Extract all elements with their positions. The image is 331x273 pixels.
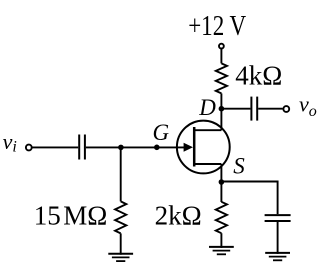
label 2kΩ [155,201,202,231]
resistor 4kΩ (drain) [216,63,227,93]
label G [153,120,170,145]
svg-text:D: D [198,95,216,120]
wire source bar down through node S to RS [220,164,222,202]
wire node S to bypass capacitor [221,182,277,215]
capacitor output coupling [251,97,257,121]
capacitor input coupling [79,135,85,160]
label 4kΩ [235,61,282,91]
transistor source lead inside [194,163,222,165]
supply label +12 V [188,11,246,42]
wire RD to drain bar [220,93,222,130]
transistor channel bar [193,127,196,167]
input terminal vi [26,145,32,151]
wire node D to output capacitor [221,108,250,110]
node S junction dot [219,179,225,185]
label S [233,154,245,179]
transistor JFET body circle [177,121,230,174]
ground (gate resistor) [108,254,133,261]
ground (bypass capacitor) [265,253,290,260]
wire RG to ground [120,233,122,254]
label 15 MΩ [34,200,108,230]
label vo [299,92,317,120]
svg-text:2kΩ: 2kΩ [155,201,202,231]
output terminal vo [283,106,289,112]
wire RS to ground [220,233,222,248]
wire output capacitor to vo terminal [258,108,282,110]
label vi [3,129,17,156]
wire vi terminal to input capacitor [32,146,78,148]
wire junction down to RG [120,147,122,201]
supply terminal [219,44,224,49]
node junction dot (gate bias) [118,145,124,151]
wire supply to RD [220,49,222,64]
transistor gate arrowhead [184,143,193,152]
svg-text:G: G [153,120,170,145]
ground (source resistor) [209,247,234,254]
resistor 2kΩ (source) [216,202,227,233]
node G dot [154,145,160,151]
svg-text:S: S [233,154,245,179]
svg-text:+12 V: +12 V [188,11,246,42]
wire bypass capacitor to ground [277,221,279,254]
svg-text:4kΩ: 4kΩ [235,61,282,91]
node D junction dot [219,106,225,112]
svg-text:15MΩ: 15MΩ [34,200,108,230]
wire input capacitor to gate [86,146,185,148]
resistor 15MΩ (gate) [115,201,126,233]
transistor drain lead inside [194,129,222,131]
capacitor source bypass [265,215,291,221]
label D [198,95,216,120]
